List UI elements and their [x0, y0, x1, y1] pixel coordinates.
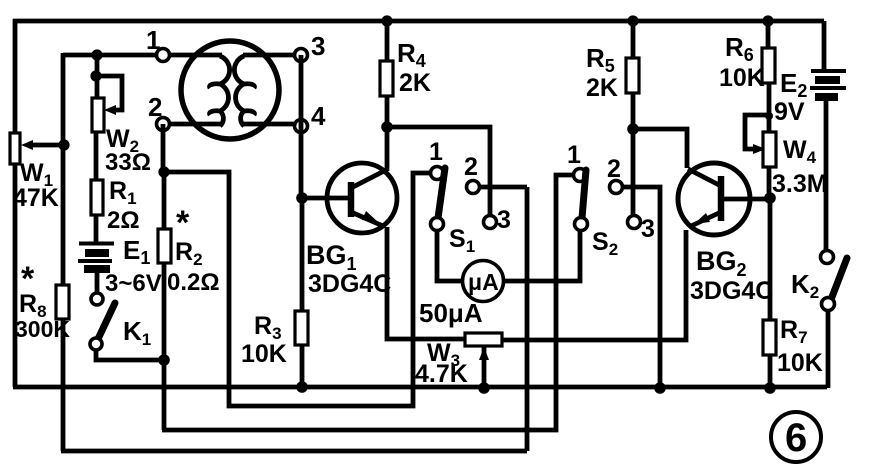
junction node (97,55)	[91, 49, 102, 60]
S1 contact 3	[484, 216, 497, 229]
S1 contact 1	[431, 167, 444, 180]
wire y=172 routing to S1 contact1	[164, 172, 431, 406]
W3 wiper arrow to ground rail	[482, 346, 487, 388]
wire W2 to R1	[94, 132, 99, 180]
wire S1 contact2 to column x527	[480, 185, 527, 190]
wire left border	[13, 19, 18, 387]
wire R4 node to S1 contact3	[387, 127, 490, 216]
S1 contact 2	[467, 181, 480, 194]
svg-text:2: 2	[148, 92, 162, 122]
wire W3 right to BG2 emitter	[502, 230, 686, 340]
BG2 emitter stroke	[689, 212, 721, 227]
resistor R2	[158, 204, 220, 296]
svg-text:10K: 10K	[719, 64, 765, 92]
svg-text:3DG4C: 3DG4C	[690, 277, 773, 305]
junction node W3 wiper	[478, 382, 490, 394]
BG1 base bar	[348, 182, 355, 217]
wire pin2 lead	[163, 122, 221, 127]
wire node to R2 to K1 node to y=430	[162, 172, 167, 430]
wire K2 to ground rail	[826, 310, 831, 388]
S1 arm	[438, 168, 445, 218]
wire top rail to E2	[822, 21, 827, 69]
E2 plates	[811, 69, 846, 73]
svg-text:10K: 10K	[777, 349, 823, 377]
K1 pivot contact	[90, 338, 102, 350]
wire pin1 lead	[163, 53, 222, 58]
wire column x527 down to y451	[525, 187, 530, 451]
S2 contact 2	[610, 181, 623, 194]
svg-text:1: 1	[146, 25, 160, 55]
battery E2	[774, 21, 846, 126]
wire y=55 top-left	[63, 53, 157, 58]
svg-text:1: 1	[567, 141, 581, 169]
potentiometer W1	[10, 133, 70, 212]
svg-text:50μA: 50μA	[419, 298, 483, 328]
terminal pin 1	[157, 49, 170, 62]
svg-text:3DG4C: 3DG4C	[308, 270, 391, 298]
transistor BG1	[302, 163, 397, 298]
BG1 emitter stroke	[351, 212, 383, 226]
svg-text:3: 3	[311, 31, 325, 61]
svg-text:33Ω: 33Ω	[105, 149, 151, 176]
BG2 base bar	[718, 176, 725, 221]
primary winding	[210, 56, 230, 126]
wire meter to S2 pivot	[503, 230, 580, 281]
svg-text:2: 2	[607, 155, 621, 183]
battery E1	[78, 235, 162, 297]
resistor R3	[241, 198, 308, 387]
secondary winding	[234, 56, 254, 126]
rheostat W2 wiper loop	[96, 76, 122, 110]
W3 body	[465, 333, 502, 346]
wire base node through R7	[768, 198, 773, 320]
switch K2	[791, 101, 847, 388]
junction dot W1 wiper	[58, 139, 69, 150]
junction node (387,127)	[381, 121, 393, 133]
terminal pin 2	[157, 118, 170, 131]
meter uA	[419, 230, 580, 328]
W4 wiper loop	[745, 115, 769, 149]
wire E2 to K2	[824, 101, 829, 250]
svg-text:3.3M: 3.3M	[772, 170, 828, 198]
svg-text:4.7K: 4.7K	[415, 360, 468, 388]
wire bottom rail	[13, 385, 827, 390]
resistor R6	[719, 15, 775, 132]
svg-text:2Ω: 2Ω	[107, 207, 140, 234]
svg-text:9V: 9V	[774, 98, 805, 126]
transformer B	[146, 25, 326, 139]
BG2 collector stroke	[688, 169, 721, 186]
wire W4 to base node	[767, 167, 772, 198]
wire pin3-pin4 link down to BG1 base	[299, 55, 304, 198]
svg-text:10K: 10K	[241, 340, 287, 368]
K1 top contact	[91, 293, 103, 305]
terminal pin 4	[295, 120, 308, 133]
wire W1 wiper column x=63 down to y=451	[61, 53, 66, 451]
svg-text:2K: 2K	[586, 74, 618, 102]
R7 body	[763, 320, 776, 355]
K2 pivot contact	[822, 298, 835, 311]
wire K1 to node	[96, 350, 164, 360]
svg-text:2: 2	[464, 153, 478, 181]
resistor R4	[380, 15, 431, 127]
svg-text:3: 3	[497, 206, 511, 234]
junction node S2-2 ground	[654, 382, 666, 394]
figure number 6	[771, 412, 821, 462]
junction node (164,172)	[158, 166, 169, 177]
meter body circle	[463, 261, 504, 302]
W2 wiper arrowhead	[104, 105, 116, 115]
svg-text:6: 6	[785, 416, 807, 460]
svg-text:1: 1	[429, 138, 443, 166]
wire BG1 emitter down to W3 left	[387, 227, 465, 339]
wire x=95 chain top	[95, 55, 100, 98]
wire pin2 down to node	[161, 124, 166, 172]
wire R5 node down to S2 contact3	[631, 129, 636, 216]
resistor R1	[91, 177, 140, 234]
svg-text:*: *	[176, 204, 190, 242]
junction node (95,76)	[90, 70, 101, 81]
wire y=430 to S2 contact1 column	[162, 175, 574, 430]
potentiometer W4	[745, 112, 828, 198]
svg-text:300K: 300K	[15, 316, 70, 342]
junction node (633,129)	[627, 123, 639, 135]
junction node (164,360)	[158, 354, 170, 366]
wire R5 node to BG2 collector	[633, 129, 687, 168]
svg-text:3~6V: 3~6V	[105, 270, 162, 297]
wire E1 to K1	[95, 273, 100, 293]
transistor BG2	[678, 163, 773, 305]
junction node R7 bottom	[764, 382, 776, 394]
S2 pivot contact	[575, 218, 588, 231]
svg-text:3: 3	[641, 215, 655, 243]
S2 arm	[582, 170, 586, 218]
terminal pin 3	[295, 49, 308, 62]
K1 arm	[98, 303, 115, 339]
K2 top contact	[821, 251, 834, 264]
BG1 collector stroke	[351, 170, 386, 188]
resistor R7	[763, 198, 823, 388]
rheostat W2	[92, 98, 151, 176]
wire BG1 base	[302, 196, 348, 201]
switch S1	[429, 138, 527, 451]
W1 body	[10, 133, 20, 164]
svg-text:μA: μA	[468, 269, 499, 295]
wire pin4 lead	[243, 122, 301, 127]
junction node R3 bottom	[296, 381, 308, 393]
wire pin3 lead	[243, 53, 301, 58]
wire top rail	[13, 19, 824, 24]
wire BG1 collector up	[385, 127, 390, 171]
svg-text:0.2Ω: 0.2Ω	[167, 269, 220, 296]
S1 pivot contact	[431, 218, 444, 231]
switch K1	[90, 273, 164, 360]
resistor R8	[15, 260, 70, 342]
svg-text:4: 4	[311, 101, 326, 131]
wire y=451 bottom-most	[61, 449, 527, 454]
resistor R5	[586, 15, 639, 129]
wire S1 pivot to meter	[437, 230, 463, 281]
wire W1 wiper arrow	[27, 143, 64, 148]
K2 arm	[832, 258, 847, 297]
wire BG2 base	[724, 197, 770, 202]
S2 contact 1	[574, 169, 587, 182]
svg-text:47K: 47K	[13, 184, 59, 212]
svg-text:2K: 2K	[399, 69, 431, 97]
junction node BG1 base (302,198)	[296, 192, 308, 204]
potentiometer W3	[415, 333, 502, 394]
wire R1 to E1	[94, 215, 99, 242]
wire S2 contact2 to ground rail	[623, 187, 660, 387]
junction node BG2 base (770,198)	[764, 192, 776, 204]
S2 contact 3	[628, 216, 641, 229]
switch S2	[567, 141, 660, 387]
